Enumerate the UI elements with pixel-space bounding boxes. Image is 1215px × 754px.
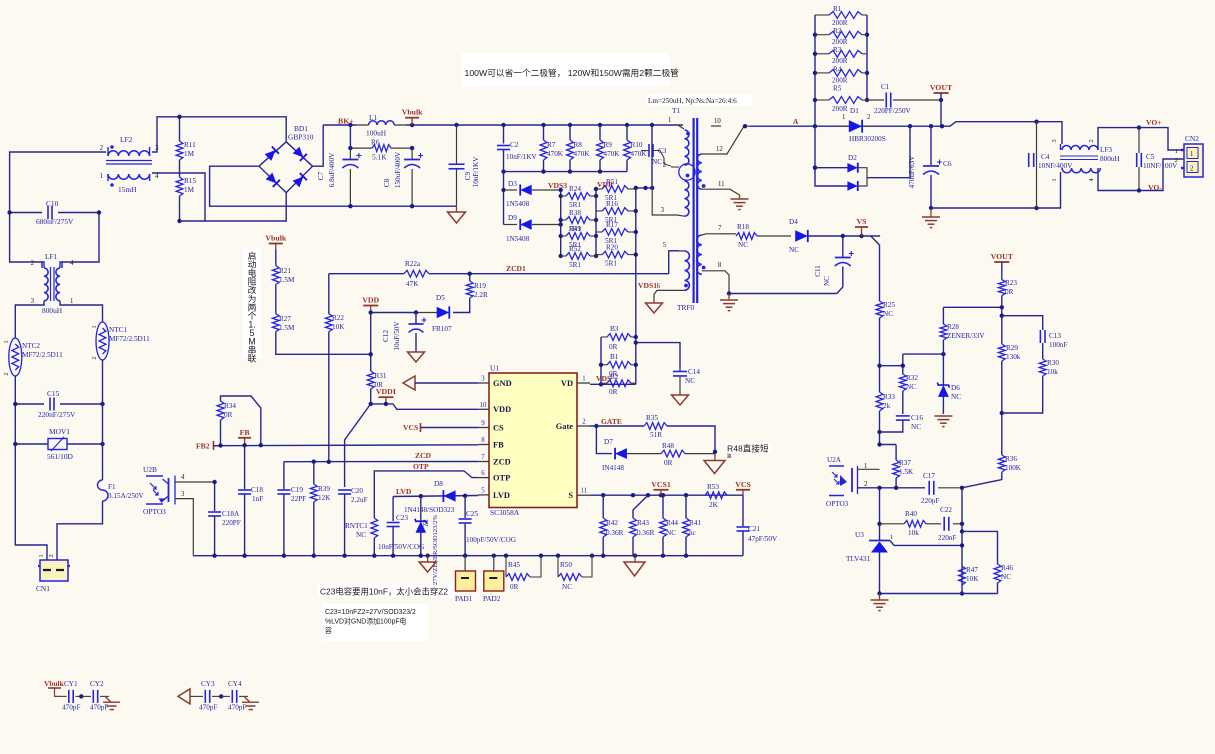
svg-text:1: 1 <box>39 555 45 558</box>
svg-text:0.36R: 0.36R <box>606 529 624 537</box>
wire U3 column top <box>877 488 881 540</box>
svg-text:FB2: FB2 <box>196 442 210 451</box>
svg-text:8: 8 <box>481 437 485 444</box>
svg-text:C15: C15 <box>47 389 60 398</box>
svg-text:12K: 12K <box>318 494 331 502</box>
optocoupler U2B OPTO3 <box>143 465 185 516</box>
power flag Vbulk <box>405 117 419 119</box>
svg-text:D2: D2 <box>848 154 857 162</box>
svg-text:1N4148/SOD323: 1N4148/SOD323 <box>404 506 455 514</box>
resistor R2 200R <box>815 31 867 38</box>
svg-text:S: S <box>568 491 573 500</box>
resistor R34 0R <box>217 396 261 446</box>
svg-text:10uF/50V: 10uF/50V <box>393 321 401 351</box>
svg-text:R16: R16 <box>606 200 618 208</box>
svg-text:VDS3: VDS3 <box>548 181 567 190</box>
resistor R15 1M <box>176 177 196 223</box>
svg-text:D9: D9 <box>508 214 517 222</box>
pad PAD1 <box>455 556 476 603</box>
op-amp U1 SC3058A controller <box>489 364 577 518</box>
svg-text:R15: R15 <box>184 177 196 185</box>
note chinese vertical <box>243 248 261 358</box>
resistor R28 ZENER/33V <box>903 305 1004 356</box>
ground flag on rail <box>427 556 429 562</box>
zener D6 NC <box>937 354 961 414</box>
capacitor C8 150uF/400V <box>383 148 423 206</box>
thermistor RNTC1 NC <box>345 518 378 556</box>
resistor R24 5R1 <box>561 185 596 209</box>
capacitor C19 22PF <box>277 462 306 556</box>
svg-text:VDD: VDD <box>362 296 379 305</box>
svg-text:47K: 47K <box>406 280 419 288</box>
svg-text:C18: C18 <box>251 486 263 494</box>
svg-text:U2A: U2A <box>827 456 842 464</box>
transformer T1 secondary winding pins 12-11 <box>697 126 750 195</box>
svg-text:nc: nc <box>689 529 696 537</box>
svg-text:R35: R35 <box>646 414 658 422</box>
inductor L1 100uH <box>356 113 406 138</box>
svg-text:100pF/50V/COG: 100pF/50V/COG <box>466 536 516 544</box>
svg-text:L1: L1 <box>369 113 378 122</box>
svg-text:10k: 10k <box>1047 368 1058 376</box>
svg-text:D3: D3 <box>508 180 517 188</box>
svg-text:R50: R50 <box>560 561 572 569</box>
svg-text:130k: 130k <box>1006 353 1021 361</box>
svg-text:U1: U1 <box>490 364 499 373</box>
svg-text:R28: R28 <box>947 323 959 331</box>
svg-text:C23电容要用10nF，太小会击穿Z2: C23电容要用10nF，太小会击穿Z2 <box>320 587 448 597</box>
svg-text:2K: 2K <box>709 501 719 509</box>
svg-text:200R: 200R <box>832 57 848 65</box>
wire S row <box>590 493 743 497</box>
svg-text:11: 11 <box>581 488 588 495</box>
wire pin1 VD row <box>590 382 636 386</box>
wire bridge DC- rail <box>210 166 457 206</box>
resistor R22 10K <box>325 274 345 462</box>
ground earth secondary <box>720 291 738 310</box>
svg-text:NC: NC <box>738 241 748 249</box>
svg-text:10NF/400V: 10NF/400V <box>1038 162 1073 170</box>
wire VS to R25 column <box>871 236 880 301</box>
svg-text:200R: 200R <box>832 76 848 84</box>
resistor R18 NC <box>720 223 791 249</box>
svg-text:0R: 0R <box>1005 288 1014 296</box>
svg-text:C6: C6 <box>943 159 952 168</box>
svg-text:NC: NC <box>789 246 799 254</box>
svg-text:R45: R45 <box>508 561 520 569</box>
svg-text:ZCD: ZCD <box>415 451 432 460</box>
svg-text:R5: R5 <box>833 85 842 93</box>
svg-text:R8: R8 <box>574 141 583 149</box>
ground flag below C14 <box>672 395 689 405</box>
svg-text:470uF/63V: 470uF/63V <box>908 155 916 189</box>
port GND arrow pin3 <box>403 376 415 390</box>
wire LF2 pin3 to bridge top <box>152 117 286 152</box>
svg-text:10nF/1KV: 10nF/1KV <box>472 156 480 188</box>
transformer T1 pin 10 stub <box>711 118 721 126</box>
power flag VDS1 triangle <box>646 303 663 313</box>
svg-text:2: 2 <box>867 114 871 121</box>
optocoupler U2A OPTO3 <box>826 456 868 508</box>
wire gate row <box>590 424 644 428</box>
resistor R31 0R <box>367 371 387 404</box>
svg-text:C7: C7 <box>317 171 325 180</box>
resistor B3 0R <box>601 325 638 351</box>
ground earth U3 <box>879 594 881 601</box>
svg-text:3: 3 <box>155 145 159 152</box>
svg-text:ZCD: ZCD <box>493 458 511 467</box>
svg-text:561/10D: 561/10D <box>47 452 74 461</box>
svg-text:4: 4 <box>181 474 185 481</box>
svg-text:470K: 470K <box>631 150 648 158</box>
svg-text:C23: C23 <box>396 514 408 522</box>
connector CN1 <box>36 555 70 594</box>
wire U2B pin4 <box>175 481 215 483</box>
resistor R48 0R <box>661 442 717 467</box>
svg-text:NC: NC <box>652 158 662 166</box>
resistor R1 200R <box>815 5 867 18</box>
pin stubs U1 right <box>577 382 590 384</box>
svg-text:800uH: 800uH <box>1100 155 1120 163</box>
svg-text:Vbulk: Vbulk <box>44 679 65 688</box>
svg-text:3: 3 <box>481 376 485 383</box>
svg-text:8: 8 <box>718 262 722 269</box>
capacitor C18A 220PF <box>208 480 241 556</box>
svg-text:R40: R40 <box>905 510 917 518</box>
svg-text:B3: B3 <box>610 325 619 333</box>
wire snubber left column <box>559 188 563 258</box>
svg-text:2k: 2k <box>883 402 891 410</box>
power flag Vbulk lower <box>269 243 283 245</box>
svg-text:NC: NC <box>906 383 916 391</box>
svg-text:C5: C5 <box>1146 153 1155 161</box>
svg-text:容: 容 <box>325 626 332 635</box>
diode D2 dual <box>813 126 910 191</box>
svg-text:R20: R20 <box>606 244 618 252</box>
resistor R44 NC <box>660 495 679 556</box>
diode D1 HBR30200S <box>840 107 886 143</box>
svg-text:C4: C4 <box>1041 153 1050 161</box>
svg-text:6.8uF/400V: 6.8uF/400V <box>328 152 336 187</box>
svg-text:220PF: 220PF <box>222 519 241 527</box>
wire B network left column <box>600 337 602 384</box>
resistor R52 5R1 <box>561 245 596 269</box>
wire VOUT stem <box>940 93 942 126</box>
resistor R47 10K <box>959 566 980 585</box>
wire x962 column <box>960 488 964 596</box>
ground flag S row <box>634 556 636 562</box>
ground earth CY2 <box>103 696 120 709</box>
wire C10 right to LF1 pin4 <box>62 213 99 269</box>
resistor R16 5R1 <box>596 200 636 224</box>
svg-text:7: 7 <box>718 225 722 232</box>
svg-text:15mH: 15mH <box>118 185 137 194</box>
resistor R45 0R <box>506 556 541 591</box>
resistor R51 5R1 <box>596 178 636 202</box>
svg-text:R38: R38 <box>569 209 581 217</box>
svg-text:D7: D7 <box>604 438 613 446</box>
wire bridge AC bottom <box>180 193 287 221</box>
diode D5 FR107 <box>416 294 452 333</box>
svg-text:2: 2 <box>31 260 35 267</box>
svg-text:TRF0: TRF0 <box>677 303 695 312</box>
capacitor C23 10nF/50V/COG <box>378 514 424 556</box>
svg-text:10K: 10K <box>332 323 345 331</box>
resistor R5 200R <box>815 97 867 104</box>
svg-text:3: 3 <box>1051 139 1058 142</box>
svg-text:680nF/275V: 680nF/275V <box>36 217 74 226</box>
svg-text:C21: C21 <box>748 525 760 533</box>
svg-text:LF3: LF3 <box>1100 146 1112 154</box>
svg-text:VS: VS <box>857 217 867 226</box>
svg-text:LVD: LVD <box>396 487 412 496</box>
wire VDDI to C20 <box>345 404 371 487</box>
svg-text:R30: R30 <box>1047 359 1059 367</box>
capacitor CY3 470pF <box>199 680 223 712</box>
svg-text:NC: NC <box>666 529 676 537</box>
ground flag below C12 <box>408 352 425 362</box>
label Lm=250uH <box>646 94 752 106</box>
svg-text:C20: C20 <box>351 487 363 495</box>
svg-text:5R1: 5R1 <box>569 201 581 209</box>
ground earth below D6 <box>934 416 952 427</box>
wire ZCD row <box>284 460 479 464</box>
capacitor C25 100pF/50V/COG <box>459 496 516 556</box>
svg-text:CY2: CY2 <box>90 680 104 688</box>
wire ZCD1 net <box>466 251 679 274</box>
svg-text:10nF/50V/COG: 10nF/50V/COG <box>378 543 424 551</box>
svg-text:D5: D5 <box>436 294 445 302</box>
svg-text:Lm=250uH, Np:Ns:Na=26:4:6: Lm=250uH, Np:Ns:Na=26:4:6 <box>648 97 737 105</box>
svg-text:VDDI: VDDI <box>376 387 396 396</box>
svg-text:1: 1 <box>91 325 98 328</box>
svg-text:C16: C16 <box>911 414 923 422</box>
resistor R43 0.36R <box>630 495 655 556</box>
svg-text:R33: R33 <box>883 393 895 401</box>
capacitor C17 220pF <box>921 472 964 505</box>
svg-text:MF72/2.5D11: MF72/2.5D11 <box>22 351 63 359</box>
svg-text:LF2: LF2 <box>120 135 133 144</box>
svg-text:0R: 0R <box>609 388 618 396</box>
wire VDR node row <box>634 186 655 190</box>
svg-text:1: 1 <box>1175 148 1178 155</box>
svg-text:2: 2 <box>663 162 667 169</box>
svg-text:1: 1 <box>1190 151 1193 158</box>
svg-text:5R1: 5R1 <box>569 261 581 269</box>
note C23 chinese <box>317 585 453 598</box>
resistor R35 51R <box>644 414 715 452</box>
svg-text:F1: F1 <box>108 483 116 491</box>
svg-text:4: 4 <box>1088 178 1095 181</box>
resistor R42 0.36R <box>600 495 624 556</box>
svg-text:IN4148: IN4148 <box>602 464 624 472</box>
svg-text:GBP310: GBP310 <box>288 133 314 142</box>
svg-text:MF72/2.5D11: MF72/2.5D11 <box>109 335 150 343</box>
svg-text:R37: R37 <box>899 459 911 467</box>
capacitor CY1 470pF <box>62 680 84 712</box>
wire BK+ bus <box>323 124 356 126</box>
svg-text:1: 1 <box>668 117 671 124</box>
svg-text:2: 2 <box>1088 139 1095 142</box>
svg-text:1M: 1M <box>184 186 195 194</box>
transformer T1 core <box>694 118 698 303</box>
wire VO- to CN2 <box>1139 159 1184 191</box>
resistor R29 130k <box>998 344 1020 455</box>
svg-text:R48: R48 <box>662 442 674 450</box>
svg-text:CN2: CN2 <box>1185 134 1199 143</box>
svg-text:2: 2 <box>1190 166 1194 173</box>
svg-text:NC: NC <box>562 583 572 591</box>
power flag VS <box>855 226 868 228</box>
diode D7 IN4148 <box>596 426 661 472</box>
svg-text:CN1: CN1 <box>36 584 50 593</box>
capacitor CY4 470pF <box>221 680 248 712</box>
svg-text:C10: C10 <box>46 199 59 208</box>
svg-text:R7: R7 <box>547 141 556 149</box>
svg-text:C3: C3 <box>658 147 667 155</box>
svg-text:R51: R51 <box>606 178 618 186</box>
svg-text:R22: R22 <box>332 314 344 322</box>
svg-text:联: 联 <box>248 354 257 364</box>
resistor R36 100K <box>962 455 1022 488</box>
wire LF2 pin4 down <box>152 173 205 221</box>
svg-text:C9: C9 <box>464 171 472 180</box>
svg-text:LF1: LF1 <box>45 252 58 261</box>
resistor R4 200R <box>815 70 867 77</box>
svg-text:3: 3 <box>661 207 665 214</box>
svg-text:100W可以省一个二极管， 120W和150W需用2颗二极管: 100W可以省一个二极管， 120W和150W需用2颗二极管 <box>465 67 680 78</box>
resistor R39 12K <box>310 462 331 556</box>
capacitor C3 NC <box>641 144 671 166</box>
svg-text:10NF/100V: 10NF/100V <box>1143 162 1178 170</box>
svg-text:Gate: Gate <box>556 422 573 431</box>
power flag FB <box>238 437 251 439</box>
svg-text:NTC2: NTC2 <box>22 342 40 350</box>
svg-text:1.5M: 1.5M <box>279 276 295 284</box>
svg-text:C22: C22 <box>940 506 952 514</box>
svg-text:NC: NC <box>951 393 961 401</box>
svg-text:4: 4 <box>155 173 159 180</box>
wire VDD column <box>369 313 373 372</box>
svg-text:1: 1 <box>100 173 103 180</box>
wire OTP row <box>374 471 478 518</box>
wire VO+ to CN2 <box>1139 128 1184 150</box>
svg-text:R17: R17 <box>606 221 618 229</box>
svg-text:220PF/250V: 220PF/250V <box>874 107 912 115</box>
svg-text:OTP: OTP <box>493 474 510 483</box>
svg-text:220nF/275V: 220nF/275V <box>38 410 76 419</box>
svg-text:VD: VD <box>561 379 573 388</box>
svg-text:4: 4 <box>70 260 74 267</box>
transformer T1 aux winding pins 5-6 <box>654 242 689 303</box>
capacitor C1 220PF/250V <box>867 83 943 115</box>
svg-text:NC: NC <box>685 377 695 385</box>
svg-text:GND: GND <box>493 379 512 388</box>
thermistor NTC1 MF72/2.5D11 <box>91 322 150 360</box>
resistor R33 2k <box>876 392 895 445</box>
svg-text:OPTO3: OPTO3 <box>826 500 849 508</box>
svg-text:470pF: 470pF <box>199 704 217 712</box>
svg-text:Z2: Z2 <box>423 519 430 527</box>
svg-text:R31: R31 <box>375 372 387 380</box>
svg-text:NC: NC <box>883 310 893 318</box>
svg-text:C25: C25 <box>466 510 478 518</box>
svg-text:0.36R: 0.36R <box>637 529 655 537</box>
svg-text:5.1K: 5.1K <box>372 153 387 162</box>
svg-text:5: 5 <box>663 242 667 249</box>
svg-text:NTC1: NTC1 <box>109 326 127 334</box>
svg-text:10k: 10k <box>908 529 919 537</box>
resistor R10 470K <box>624 125 648 172</box>
resistor R21 1.5M <box>272 250 295 285</box>
svg-text:OTP: OTP <box>413 462 429 471</box>
svg-text:R41: R41 <box>689 519 701 527</box>
power flag VDDI <box>378 396 393 398</box>
svg-text:R42: R42 <box>606 519 618 527</box>
junction dots DC- rail <box>348 204 414 208</box>
svg-text:150uF/400V: 150uF/400V <box>394 151 402 188</box>
capacitor C22 220nF <box>938 506 964 542</box>
svg-text:1: 1 <box>70 298 73 305</box>
transformer T1 primary winding pins 1-2 <box>663 117 696 180</box>
svg-text:470pF: 470pF <box>62 704 80 712</box>
svg-text:800uH: 800uH <box>42 306 63 315</box>
svg-text:R27: R27 <box>279 315 291 323</box>
wire FB row to pin8 <box>214 443 479 448</box>
connector CN2 <box>1175 134 1203 177</box>
capacitor C9 10nF/1KV <box>449 125 481 206</box>
port arrow CY3 <box>178 689 190 704</box>
svg-text:22PF: 22PF <box>291 495 306 503</box>
resistor B2 0R <box>601 373 636 396</box>
svg-text:2: 2 <box>3 372 10 375</box>
svg-text:1N5408: 1N5408 <box>506 235 530 243</box>
resistor R8 470K <box>567 125 591 172</box>
svg-text:Vbulk: Vbulk <box>265 234 286 243</box>
svg-text:470K: 470K <box>574 150 591 158</box>
svg-text:7: 7 <box>481 454 485 461</box>
shunt reference U3 TLV431 <box>846 531 962 594</box>
resistor R25 NC <box>876 301 895 392</box>
wire main ground rail <box>193 554 743 558</box>
svg-text:6: 6 <box>657 283 661 290</box>
svg-text:CY3: CY3 <box>201 680 215 688</box>
svg-text:路: 路 <box>727 453 732 460</box>
resistor R23 0R <box>998 262 1017 344</box>
svg-text:0R: 0R <box>510 583 519 591</box>
resistor R20 5R1 <box>596 244 636 268</box>
svg-text:R1: R1 <box>833 5 842 13</box>
svg-text:%LVD对GND添加100pF电: %LVD对GND添加100pF电 <box>325 617 407 626</box>
svg-text:R3: R3 <box>833 46 842 54</box>
svg-text:NC: NC <box>911 423 921 431</box>
wire secondary output <box>743 120 1062 145</box>
svg-text:R10: R10 <box>631 141 643 149</box>
capacitor C7 6.8uF/400V <box>317 148 361 206</box>
resistor R46 NC <box>962 531 1013 593</box>
svg-text:T1: T1 <box>672 106 681 115</box>
svg-text:VCS: VCS <box>403 423 418 432</box>
capacitor C10 680nF/275V <box>7 199 101 226</box>
svg-text:10: 10 <box>480 402 487 409</box>
svg-text:R46: R46 <box>1001 564 1013 572</box>
svg-text:1: 1 <box>842 114 845 121</box>
svg-text:R25: R25 <box>883 301 895 309</box>
capacitor C6 470uF/63V <box>908 126 952 210</box>
svg-text:R11: R11 <box>184 141 196 149</box>
svg-text:5R1: 5R1 <box>605 260 617 268</box>
resistor R17 5R1 <box>596 221 636 245</box>
